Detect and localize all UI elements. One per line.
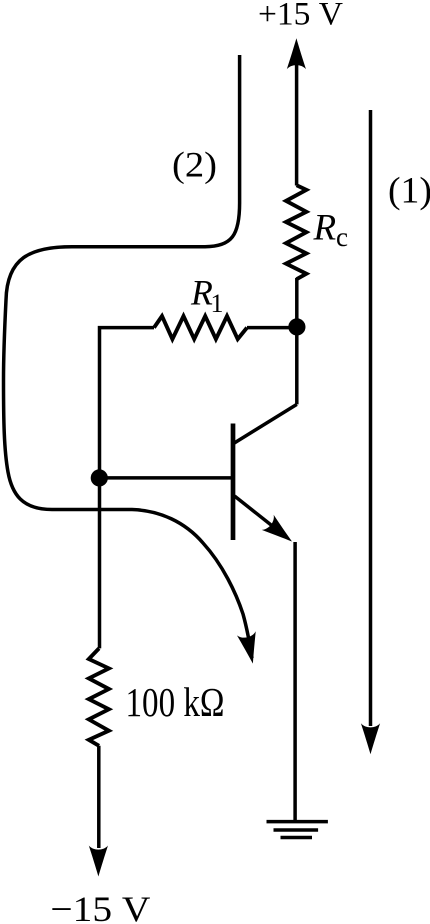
wire R1 to node A xyxy=(247,326,292,330)
wire node A down to collector bend xyxy=(295,327,299,404)
svg-text:(2): (2) xyxy=(172,144,217,184)
node A (collector junction) xyxy=(288,318,305,335)
emitter arrowhead xyxy=(262,515,298,549)
wire (2) curved feedback path xyxy=(4,55,253,658)
resistor 100k xyxy=(89,648,109,745)
svg-text:−15 V: −15 V xyxy=(50,889,150,924)
svg-text:+15 V: +15 V xyxy=(258,0,343,32)
svg-text:100 kΩ: 100 kΩ xyxy=(126,679,225,725)
arrow (1) head xyxy=(361,723,380,754)
wire Rc bottom to node A xyxy=(295,278,299,330)
svg-text:1: 1 xyxy=(211,289,224,318)
wire 100k to -15V arrow xyxy=(97,746,101,848)
wire: corner to R1 lead xyxy=(100,328,155,480)
svg-text:(1): (1) xyxy=(388,171,430,212)
resistor R1 xyxy=(154,316,247,339)
emitter diagonal with arrow xyxy=(235,496,286,536)
power arrow +15V (shaft) xyxy=(295,64,299,186)
arrow head of (2) swoop xyxy=(237,631,262,665)
node B (base junction) xyxy=(91,469,108,486)
base wire from node B to bar xyxy=(99,476,233,480)
ground xyxy=(267,822,328,838)
collector diagonal into transistor bar xyxy=(234,404,297,443)
resistor Rc xyxy=(286,185,306,279)
transistor Q1 bar xyxy=(231,424,236,541)
svg-text:R: R xyxy=(313,208,337,249)
power arrow +15V (head) xyxy=(287,38,306,69)
svg-text:c: c xyxy=(336,222,348,252)
-15V arrowhead xyxy=(89,846,108,877)
emitter vertical wire to ground xyxy=(293,542,297,822)
left vertical wire node B to 100k xyxy=(98,477,102,648)
arrow (1) shaft xyxy=(369,110,373,726)
